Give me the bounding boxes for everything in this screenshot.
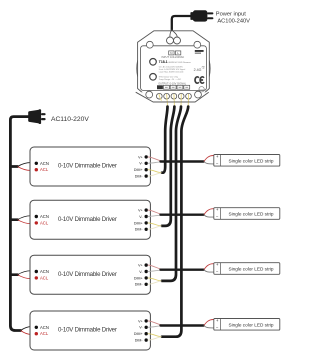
- wire: DIM+ lead from driver D4 (yellow): [148, 334, 162, 337]
- svg-text:AC100-240V: AC100-240V: [217, 18, 250, 24]
- svg-text:ACL: ACL: [40, 220, 49, 225]
- svg-text:Power input: Power input: [216, 12, 246, 18]
- screw top-left: [146, 41, 153, 48]
- svg-text:Single color LED strip: Single color LED strip: [228, 212, 273, 217]
- controller U1 (T18-1 0-10V dimmer) body outline: [138, 31, 210, 100]
- wire: negative lead into strip 2 (grey): [204, 215, 214, 217]
- wire: ACN lead into driver 1: [18, 163, 37, 167]
- wire: coloured leads from controller output holes: [159, 94, 162, 101]
- wire: power cord from plug P1 to controller input: [172, 16, 194, 30]
- wire: output cable driver D1 to LED strip 1: [161, 160, 204, 162]
- svg-text:AC110-220V: AC110-220V: [51, 116, 89, 123]
- screw top-right: [194, 41, 201, 48]
- wire: positive lead into strip 4 (red): [204, 319, 214, 325]
- wire: output cable driver D4 to LED strip 4: [161, 324, 204, 326]
- svg-text:DIM-: DIM-: [135, 283, 144, 287]
- wire: DIM+ lead from driver D1 (yellow): [148, 170, 162, 173]
- CE mark: [195, 77, 199, 83]
- wire: positive lead into strip 2 (red): [204, 209, 214, 215]
- svg-text:ACL: ACL: [40, 167, 49, 172]
- wire: V+ lead from driver D2 (red): [148, 210, 164, 214]
- wire: V- lead from driver D3 (grey): [148, 270, 164, 272]
- bottom cover hole 3: [171, 93, 177, 99]
- wire: ACL lead into driver 3 (live, red): [18, 275, 37, 279]
- driver D3 terminal ACL: [35, 276, 38, 279]
- button B2: [150, 74, 157, 81]
- controller front face plate: [141, 46, 207, 91]
- driver D1 terminal ACL: [35, 168, 38, 171]
- svg-text:V+: V+: [138, 209, 143, 213]
- wire: output cable driver D2 to LED strip 2: [161, 213, 204, 215]
- wire: ACN lead into driver 3: [18, 271, 37, 275]
- svg-text:0-10V Dimmable Driver: 0-10V Dimmable Driver: [58, 327, 117, 334]
- button B1: [150, 59, 157, 66]
- svg-text:V+: V+: [138, 155, 143, 159]
- terminal N box: [169, 51, 174, 55]
- driver D4 terminal ACL: [35, 332, 38, 335]
- wire: V+ lead from driver D1 (red): [148, 157, 164, 161]
- wire: negative lead into strip 1 (grey): [204, 162, 214, 164]
- svg-text:DIM+: DIM+: [134, 168, 143, 172]
- wire: AC mains bus from plug P2 down the left side: [10, 117, 28, 331]
- wire: V- lead from driver D1 (grey): [148, 162, 164, 164]
- svg-text:INPUT: 100-240VAC: INPUT: 100-240VAC: [161, 56, 184, 59]
- wire: positive lead into strip 1 (red): [204, 155, 214, 161]
- svg-text:Single color LED strip: Single color LED strip: [228, 159, 273, 164]
- svg-text:DIM+: DIM+: [134, 332, 143, 336]
- svg-text:RoHS: RoHS: [199, 89, 205, 91]
- wire: forked input leads to controller terminals: [170, 30, 172, 38]
- input terminal circle 2: [174, 37, 181, 44]
- bottom cover hole 5: [186, 93, 192, 99]
- svg-text:ACN: ACN: [40, 269, 49, 274]
- driver D2 terminal ACN: [35, 215, 38, 218]
- wire: positive lead into strip 3 (red): [204, 264, 214, 270]
- wire: negative lead into strip 3 (grey): [204, 270, 214, 272]
- driver D4 terminal ACN: [35, 326, 38, 329]
- wire: negative lead into strip 4 (grey): [204, 326, 214, 328]
- wire W2: controller output to driver 2 DIM input: [162, 107, 175, 226]
- svg-text:Load: Max 400W Dimmable: Load: Max 400W Dimmable: [159, 71, 185, 73]
- svg-text:V+: V+: [138, 319, 143, 323]
- svg-text:N: N: [170, 51, 172, 55]
- controller side grips: [136, 61, 139, 77]
- wire: output cable driver D3 to LED strip 3: [161, 269, 204, 271]
- RoHS mark: [199, 87, 204, 92]
- wire: V+ lead from driver D3 (red): [148, 265, 164, 269]
- driver D3: 0-10V dimmable driver box: [30, 255, 150, 294]
- output terminal block: [157, 85, 163, 89]
- wire W1: controller output to driver 1 DIM input: [162, 107, 168, 173]
- svg-text:0-10V Dimmable Driver: 0-10V Dimmable Driver: [58, 271, 117, 278]
- wire W4: controller output to driver 4 DIM input: [162, 107, 188, 337]
- wire: ACL lead into driver 2 (live, red): [18, 220, 37, 224]
- LED strip 1: single color LED strip: [214, 155, 280, 167]
- wire: mains branch stub to driver 1: [10, 165, 17, 168]
- screw bottom-right: [195, 91, 202, 98]
- svg-text:Single color LED strip: Single color LED strip: [228, 267, 273, 272]
- wire: mains branch stub to driver 2: [10, 218, 17, 221]
- wire: DIM- lead from driver D2 (cream): [148, 226, 162, 229]
- screw bottom-left: [146, 91, 153, 98]
- svg-text:V+: V+: [138, 264, 143, 268]
- wire: ACN lead into driver 2: [18, 216, 37, 220]
- bottom cover hole 2: [164, 93, 170, 99]
- power plug P2 (AC110-220V mains plug, left): [28, 109, 45, 124]
- LED strip 2: single color LED strip: [214, 208, 280, 220]
- driver D4: 0-10V dimmable driver box: [30, 311, 150, 350]
- driver D1: 0-10V dimmable driver box: [30, 147, 150, 186]
- bottom cover hole 4: [178, 93, 184, 99]
- terminal L box: [175, 51, 180, 55]
- bottom cover hole 1: [156, 93, 162, 99]
- wire: V+ lead from driver D4 (red): [148, 321, 164, 325]
- controller bottom terminal cover: [136, 92, 209, 102]
- svg-text:0-10V Dimmable Driver: 0-10V Dimmable Driver: [58, 216, 117, 223]
- svg-text:OUTPUT: 0-10V SIGNAL: OUTPUT: 0-10V SIGNAL: [158, 82, 187, 85]
- svg-text:ACL: ACL: [40, 331, 49, 336]
- wire: DIM- lead from driver D4 (cream): [148, 337, 162, 340]
- driver D3 terminal ACN: [35, 270, 38, 273]
- driver D2: 0-10V dimmable driver box: [30, 200, 150, 239]
- power plug P1 (AC100-240V mains plug, top right): [190, 10, 213, 21]
- svg-text:DIM+: DIM+: [134, 276, 143, 280]
- wire: ACL lead into driver 1 (live, red): [18, 167, 37, 171]
- svg-text:DIM-: DIM-: [135, 228, 144, 232]
- wire: DIM+ lead from driver D3 (yellow): [148, 278, 162, 281]
- svg-text:Single color LED strip: Single color LED strip: [228, 323, 273, 328]
- LED strip 4: single color LED strip: [214, 319, 280, 331]
- svg-text:ACN: ACN: [40, 325, 49, 330]
- wire: V- lead from driver D4 (grey): [148, 326, 164, 328]
- barcode label: [195, 50, 204, 52]
- wire: DIM- lead from driver D1 (cream): [148, 173, 162, 176]
- svg-text:DIM-: DIM-: [135, 175, 144, 179]
- wire: V- lead from driver D2 (grey): [148, 215, 164, 217]
- svg-text:ACN: ACN: [40, 214, 49, 219]
- wire: DIM+ lead from driver D2 (yellow): [148, 223, 162, 226]
- input terminal circle 1: [167, 37, 174, 44]
- driver D1 terminal ACN: [35, 162, 38, 165]
- controller bottom cover edge (over leads): [153, 101, 195, 103]
- svg-text:L: L: [177, 51, 179, 55]
- wire W3: controller output to driver 3 DIM input: [162, 107, 181, 281]
- wire: mains branch stub to driver 3: [10, 273, 17, 276]
- svg-text:DIM-: DIM-: [135, 339, 144, 343]
- wire: ACL lead into driver 4 (live, red): [21, 331, 37, 335]
- LED strip 3: single color LED strip: [214, 263, 280, 275]
- svg-text:2.4G: 2.4G: [194, 68, 202, 72]
- svg-text:ACL: ACL: [40, 275, 49, 280]
- svg-text:0-10V Dimmable Driver: 0-10V Dimmable Driver: [58, 163, 117, 170]
- svg-text:Temp Range: -20 ~ +45C: Temp Range: -20 ~ +45C: [159, 79, 182, 81]
- svg-text:DIM+: DIM+: [134, 221, 143, 225]
- driver D2 terminal ACL: [35, 221, 38, 224]
- wire: ACN lead into driver 4: [21, 327, 37, 331]
- svg-text:ACN: ACN: [40, 161, 49, 166]
- wire: DIM- lead from driver D3 (cream): [148, 281, 162, 284]
